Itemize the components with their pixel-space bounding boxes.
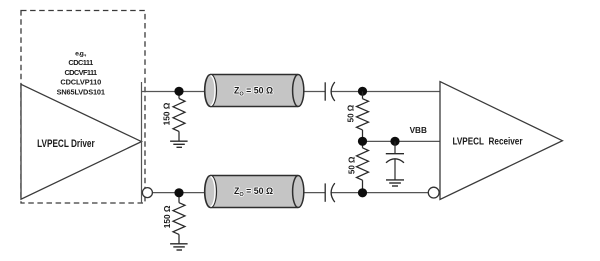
svg-text:50 Ω: 50 Ω bbox=[347, 156, 356, 174]
svg-text:CDCLVP110: CDCLVP110 bbox=[60, 78, 101, 87]
svg-text:e.g.,: e.g., bbox=[75, 50, 87, 57]
svg-text:VBB: VBB bbox=[410, 126, 427, 135]
svg-text:LVPECL Receiver: LVPECL Receiver bbox=[453, 136, 523, 147]
svg-text:CDC111: CDC111 bbox=[68, 58, 93, 67]
svg-text:SN65LVDS101: SN65LVDS101 bbox=[57, 87, 105, 96]
svg-text:CDCVF111: CDCVF111 bbox=[64, 68, 97, 77]
svg-text:50 Ω: 50 Ω bbox=[347, 104, 356, 122]
svg-text:150 Ω: 150 Ω bbox=[162, 102, 172, 125]
svg-text:LVPECL Driver: LVPECL Driver bbox=[37, 138, 95, 150]
svg-text:150 Ω: 150 Ω bbox=[162, 205, 172, 228]
